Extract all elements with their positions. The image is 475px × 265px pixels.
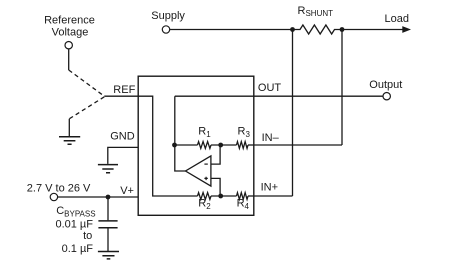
resistor R4	[237, 193, 249, 200]
wire: op-amp noninverting input to R2/R4 node	[211, 178, 220, 195]
wire: bypass capacitor to ground	[107, 228, 109, 251]
svg-text:Supply: Supply	[151, 10, 185, 22]
wire: IN- pin extension	[254, 144, 342, 146]
svg-text:CBYPASS: CBYPASS	[56, 205, 95, 219]
wire: GND pin to ground symbol	[108, 147, 138, 164]
wire: R4 to box edge	[248, 195, 254, 197]
wire: feedback line from OUT row down to op-amp output	[175, 96, 186, 171]
load arrowhead	[402, 26, 411, 33]
junction: shunt right node	[340, 27, 345, 32]
resistor RSHUNT	[293, 25, 343, 34]
wire: reference voltage terminal stub	[68, 49, 70, 70]
junction: V+/bypass node	[106, 195, 111, 200]
capacitor CBYPASS plates	[98, 221, 117, 228]
terminal: V+ supply input	[50, 193, 57, 200]
svg-text:REF: REF	[113, 84, 135, 96]
junction: shunt left node	[290, 27, 295, 32]
svg-text:GND: GND	[110, 131, 135, 143]
svg-text:IN+: IN+	[261, 182, 278, 194]
svg-text:Reference: Reference	[44, 14, 95, 26]
op-amp inverting input mark	[204, 163, 207, 165]
svg-text:Load: Load	[385, 13, 409, 25]
junction: R1/R3 node	[218, 143, 223, 148]
svg-text:R1: R1	[198, 126, 211, 139]
wire: V+ node down to bypass capacitor	[107, 197, 109, 220]
wire: right shunt tap down to IN- row	[341, 30, 343, 146]
wire: load arrow line	[342, 29, 403, 31]
svg-text:V+: V+	[120, 185, 134, 197]
resistor R1	[198, 142, 212, 149]
svg-text:IN–: IN–	[262, 132, 280, 144]
wire: op-amp inverting input to R1/R3 node	[211, 146, 220, 165]
wire: R2 to R4	[211, 195, 237, 197]
ground symbol: GND pin	[98, 165, 118, 173]
wire: V+ terminal to box	[58, 196, 139, 198]
terminal: Supply	[162, 26, 169, 33]
ground symbol: bypass	[98, 252, 119, 259]
op-amp U1	[186, 156, 211, 186]
wire: feedback node to R1	[175, 144, 198, 146]
wire: left shunt tap down to IN+ row	[292, 30, 294, 197]
terminal: Reference Voltage	[65, 42, 72, 49]
wire: IN+ pin extension	[254, 195, 293, 197]
wire: REF pin into box, down and to R2	[104, 96, 197, 196]
junction: R2/R4 node	[218, 194, 223, 199]
svg-text:to: to	[83, 230, 92, 242]
wire: R3 to box edge	[248, 144, 254, 146]
resistor R3	[237, 142, 249, 149]
svg-text:Voltage: Voltage	[52, 26, 89, 38]
resistor R2	[198, 193, 212, 200]
terminal: Output	[383, 93, 390, 100]
wire: OUT pin to Output terminal	[175, 95, 383, 97]
wire: supply rail from Supply terminal to shunt left node	[170, 29, 293, 31]
svg-text:0.1 µF: 0.1 µF	[62, 243, 94, 255]
wire: reference ground stub	[68, 119, 70, 136]
svg-text:2.7 V to 26 V: 2.7 V to 26 V	[27, 182, 91, 194]
svg-text:Output: Output	[369, 79, 402, 91]
svg-text:RSHUNT: RSHUNT	[298, 5, 334, 18]
op-amp noninverting input mark	[204, 177, 207, 180]
wire: R1 to R3	[211, 144, 237, 146]
svg-text:OUT: OUT	[258, 82, 282, 94]
ground symbol: reference	[59, 137, 80, 144]
svg-text:R3: R3	[238, 126, 251, 139]
svg-text:0.01 µF: 0.01 µF	[55, 218, 93, 230]
IC box outline	[138, 76, 254, 215]
junction: feedback/R1 node	[172, 143, 177, 148]
wire: dashed option link REF to ground	[69, 97, 104, 119]
wire: dashed option link terminal to REF	[69, 70, 105, 96]
